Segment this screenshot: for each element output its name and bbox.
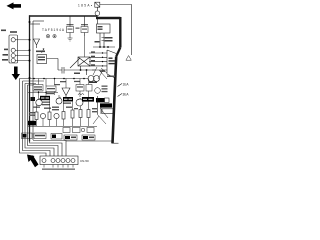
junction dots on bus xyxy=(29,21,31,79)
white box below xyxy=(102,109,114,114)
svg-text:3EA: 3EA xyxy=(123,93,130,97)
black label band 2 xyxy=(63,97,73,101)
wire top stub y24 xyxy=(30,23,41,25)
wires below tuner xyxy=(100,33,104,47)
wire F2 pins xyxy=(84,16,86,36)
AV panel rows xyxy=(89,53,107,70)
warning triangle xyxy=(126,56,131,61)
inner white box (tuner) xyxy=(97,24,111,33)
panel foot xyxy=(112,142,119,144)
capacitor symbol xyxy=(58,67,95,74)
wire outer thin boundary xyxy=(100,5,132,56)
AV panel trapezoid xyxy=(107,50,116,79)
wires verticals in band xyxy=(39,79,89,89)
wire hline y81 xyxy=(23,80,45,82)
connector pins below xyxy=(44,165,73,168)
diagonal wires bottom-right of band xyxy=(93,108,108,124)
ground symbol xyxy=(68,38,73,41)
component box F2 xyxy=(81,27,88,33)
wire left vertical bus xyxy=(29,15,31,141)
wire second vertical xyxy=(32,21,34,140)
dark component left xyxy=(31,97,36,101)
wire from R1 xyxy=(47,59,59,71)
black label mid-left xyxy=(28,121,36,126)
svg-text:1EA: 1EA xyxy=(123,83,130,87)
crossed box (degauss) xyxy=(78,57,90,66)
antenna triangle symbol xyxy=(34,39,40,48)
wire right column verticals xyxy=(98,96,102,114)
text Ac 2w + diagonals right mid xyxy=(100,71,115,78)
dense band row B circles xyxy=(36,99,42,105)
wire main top bus xyxy=(30,15,98,17)
connector CN-1 (left) xyxy=(9,35,18,63)
triangle symbol band xyxy=(62,88,70,99)
black label band 1 xyxy=(40,96,50,100)
thick box right edge xyxy=(119,17,121,48)
wire main mid hline y78 xyxy=(20,78,89,80)
wire top stub y21 xyxy=(33,20,44,22)
component box F1 xyxy=(67,27,74,33)
svg-text:CN-50: CN-50 xyxy=(80,159,89,163)
wire hline inside xyxy=(93,46,115,48)
wire hline y83 xyxy=(25,83,36,85)
black label IC801 xyxy=(96,98,109,102)
double circle component xyxy=(88,76,94,82)
arrow black down (below connector) xyxy=(12,67,20,81)
arrow pointing left (top-left) xyxy=(7,2,22,9)
bottom connector CN-50 xyxy=(40,156,78,165)
label CN-1 text xyxy=(1,30,17,61)
thick box top edge xyxy=(96,17,120,19)
pin circled numbers xyxy=(46,35,49,38)
small boxes row y127 right xyxy=(63,128,70,133)
nested wires to bottom connector xyxy=(20,79,47,157)
wire hline to foot xyxy=(66,140,112,142)
wire hline y92.5 xyxy=(28,92,58,94)
wires connector to main bus xyxy=(15,40,29,61)
bottom label row xyxy=(22,133,96,140)
arrow diagonal (bottom) xyxy=(27,155,39,168)
black label band 3 xyxy=(82,97,94,102)
thick diagonal xyxy=(116,48,120,57)
component box R1 xyxy=(37,55,47,64)
junction dots mid line xyxy=(33,78,85,80)
coil arcs xyxy=(78,94,84,96)
black label 2 xyxy=(100,103,112,107)
wire F1 pins xyxy=(69,16,71,38)
thick panel vertical xyxy=(113,57,117,144)
wire box2 to crossed box xyxy=(84,36,86,57)
vertical resistors row C xyxy=(35,110,90,120)
fuse box top xyxy=(95,2,100,7)
small transistor circles row C xyxy=(40,113,45,118)
dense band row A xyxy=(33,85,43,92)
wire hline y85 stub xyxy=(28,84,34,86)
svg-text:TAF5194A: TAF5194A xyxy=(42,28,65,32)
fuse circle xyxy=(95,11,100,16)
variable arrow above R1 xyxy=(42,49,45,54)
small motor circle right xyxy=(95,88,101,94)
